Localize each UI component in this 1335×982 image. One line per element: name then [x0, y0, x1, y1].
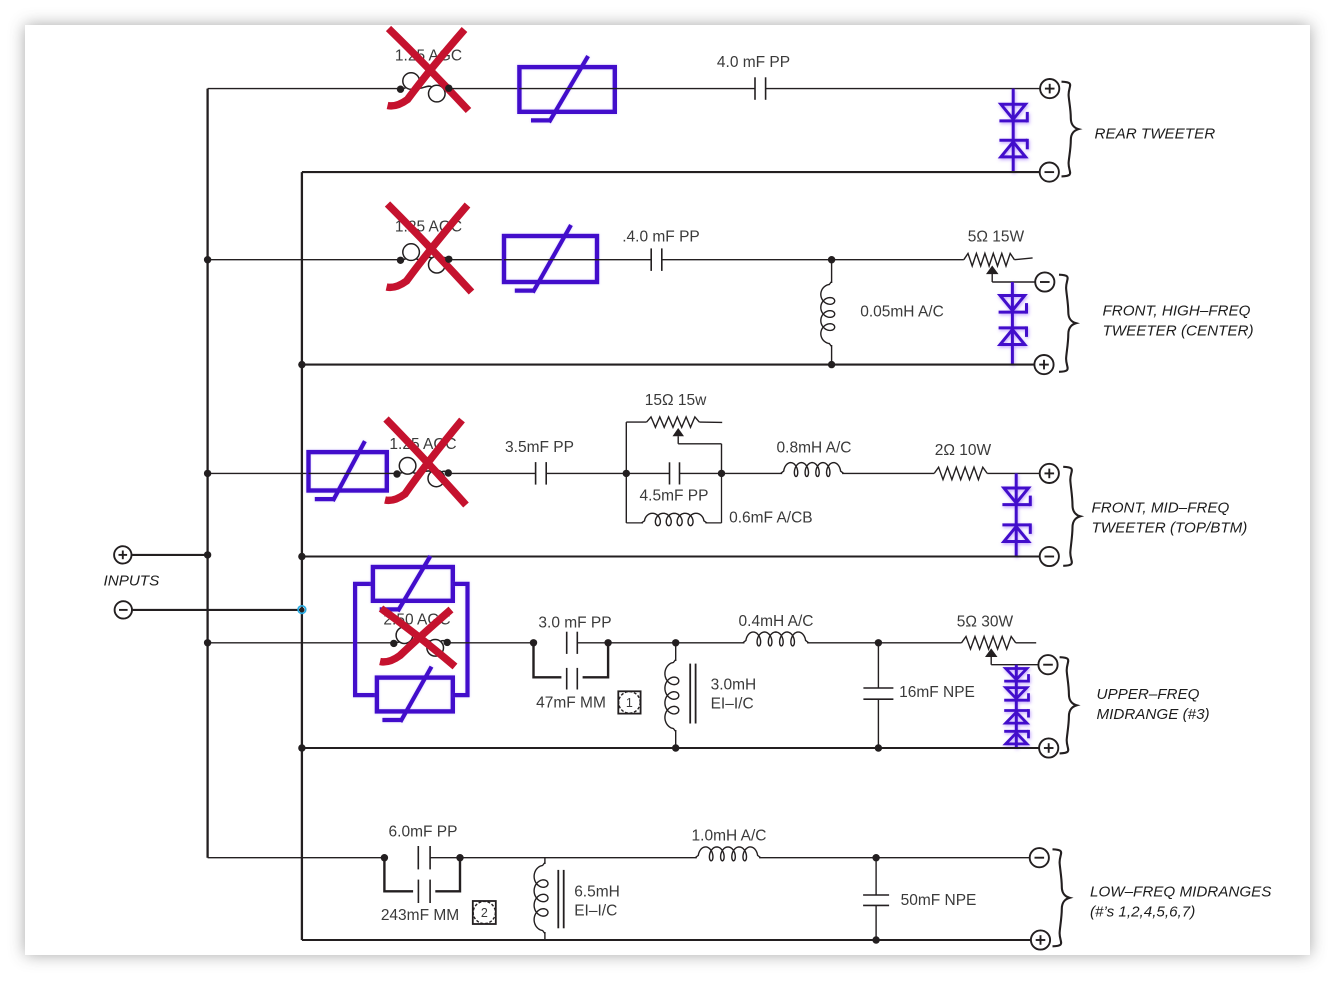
capacitor C9 243mF MM [418, 880, 430, 903]
brace row2 [1059, 275, 1076, 372]
label inductor L4 line2 [711, 696, 754, 713]
capacitor C5 3.0 mF PP [567, 632, 578, 654]
brace row3 [1063, 467, 1080, 566]
varistor frame left (row4 parallel pair) [355, 584, 377, 695]
inductor L7 1.0mH A/C (series) [695, 847, 760, 861]
fuse F3 1.25 AGC (row3) [397, 458, 448, 487]
wire capacitor C1 to + terminal row1 [766, 88, 1041, 90]
label FRONT MID-FREQ line2 [1092, 520, 1248, 537]
wire capacitor C3 to node A [546, 472, 626, 474]
label FRONT HIGH-FREQ TWEETER line1 [1103, 303, 1251, 320]
wire inductor L4 bottom stub [675, 730, 677, 748]
capacitor C2 .4.0 mF PP [651, 248, 662, 271]
label capacitor C1 value [717, 54, 790, 71]
capacitor C7 16mF NPE (shunt) [863, 643, 893, 748]
fuse F4 2.50 AGC (row4) [394, 627, 447, 656]
svg-text:5Ω 30W: 5Ω 30W [957, 614, 1014, 631]
brace row5 [1053, 849, 1070, 946]
node row5 cap loop left [381, 854, 388, 861]
label inductor L3 value [777, 440, 852, 457]
svg-text:MIDRANGE (#3): MIDRANGE (#3) [1097, 706, 1210, 723]
svg-text:3.0 mF PP: 3.0 mF PP [538, 615, 611, 632]
node row4 shunt cap top [875, 639, 882, 646]
red X over fuse F3 (crossed out) [385, 419, 466, 505]
red X over fuse F2 (crossed out) [387, 204, 472, 292]
svg-text:0.05mH A/C: 0.05mH A/C [860, 304, 944, 321]
svg-text:0.4mH A/C: 0.4mH A/C [739, 613, 814, 630]
core of inductor L6 [558, 870, 563, 928]
zener quad D7-D10 (row4 protection) [1004, 665, 1028, 748]
fuse F1 1.25 AGC (row1) [401, 73, 449, 102]
svg-text:2Ω 10W: 2Ω 10W [935, 442, 992, 459]
node fuse F1 terminals [397, 85, 453, 93]
label LOW-FREQ MIDRANGES line1 [1090, 884, 1271, 901]
node row4 cap loop right [604, 639, 611, 646]
zener pair D1/D2 (row1 speaker protection) [999, 89, 1027, 173]
inductor L1 0.05mH A/C (shunt) [821, 260, 835, 347]
varistor RV2 (row2) [504, 225, 597, 293]
svg-text:1.25 AGC: 1.25 AGC [395, 48, 462, 65]
wire row1 return from bus B [302, 171, 1040, 173]
node row2 shunt inductor top [828, 256, 835, 263]
inductor L4 3.0mH EI-I/C (shunt) [665, 643, 679, 732]
wire inductor L3 to resistor R3 [842, 472, 934, 474]
svg-text:TWEETER (TOP/BTM): TWEETER (TOP/BTM) [1092, 520, 1248, 537]
varistor frame right (row4 parallel pair) [453, 584, 468, 695]
node fuse F3 terminals [393, 469, 452, 477]
svg-text:(#’s 1,2,4,5,6,7): (#’s 1,2,4,5,6,7) [1090, 904, 1195, 921]
inductor L6 6.5mH EI-I/C (shunt) [534, 858, 548, 940]
label inductor L6 line1 [574, 884, 620, 901]
label capacitor C5 value [538, 615, 611, 632]
svg-text:EI–I/C: EI–I/C [574, 903, 617, 920]
wire row5 return from bus B [302, 939, 1031, 941]
label capacitor C8 value [389, 824, 458, 841]
svg-text:0.8mH A/C: 0.8mH A/C [777, 440, 852, 457]
capacitor C3 3.5mF PP [536, 462, 547, 485]
terminal row1 + (REAR TWEETER) [1040, 79, 1059, 98]
label capacitor C9 value [381, 907, 459, 924]
wire capacitor C8 to node [430, 857, 460, 859]
node row5 shunt cap top [872, 854, 879, 861]
wire inductor L5 to rheostat R4 [807, 642, 961, 644]
wire row5 feed from bus A [208, 857, 385, 859]
inductor L3 0.8mH A/C [781, 463, 844, 477]
svg-text:4.0 mF PP: 4.0 mF PP [717, 54, 790, 71]
svg-text:0.6mF A/CB: 0.6mF A/CB [729, 510, 813, 527]
numbered tag 1 [618, 691, 640, 713]
wire capacitor C2 to rheostat R1 [662, 259, 964, 261]
svg-text:FRONT, HIGH–FREQ: FRONT, HIGH–FREQ [1103, 303, 1251, 320]
svg-text:47mF MM: 47mF MM [536, 695, 606, 712]
wiper of rheostat R4 [985, 648, 1039, 664]
label capacitor C2 value [622, 229, 700, 246]
wire row2 feed from bus A [208, 259, 400, 261]
capacitor C10 50mF NPE (shunt) [863, 858, 889, 940]
wire node B to inductor L3 [722, 472, 783, 474]
varistor RV1 (row1) [519, 56, 614, 122]
rheostat R4 5 ohm 30W [962, 637, 1037, 650]
label resistor R3 value [935, 442, 992, 459]
wire inductor L1 bottom stub [831, 345, 833, 365]
wire input bus A (from + input, feeds all rows) [206, 89, 208, 858]
wire return bus B (to - input) [301, 172, 303, 940]
label capacitor C4 value [640, 488, 709, 505]
core of inductor L4 [690, 664, 695, 724]
wire capacitor C4 to node B [679, 472, 721, 474]
wire node A up to rheostat branch [625, 422, 627, 473]
brace row4 [1060, 657, 1077, 753]
wire resistor R3 to + terminal row3 [987, 472, 1040, 474]
wire node to shunt inductor L6 [460, 857, 697, 859]
label FRONT HIGH-FREQ TWEETER line2 [1103, 323, 1254, 340]
label inductor L7 value [692, 828, 767, 845]
node fuse F2 terminals [397, 256, 453, 264]
resistor R3 2 ohm 10W [934, 467, 987, 479]
label LOW-FREQ MIDRANGES line2 [1090, 904, 1195, 921]
zener pair D3/D4 (row2 protection) [999, 282, 1027, 365]
wire through varistor RV3 [309, 472, 397, 474]
wire fuse F4 to capacitor C5 [447, 642, 533, 644]
svg-text:1: 1 [626, 696, 633, 710]
svg-text:TWEETER (CENTER): TWEETER (CENTER) [1103, 323, 1254, 340]
label INPUTS [104, 573, 160, 590]
wire varistor RV2 to capacitor C2 [597, 259, 651, 261]
label capacitor C3 value [505, 439, 574, 456]
svg-text:3.5mF PP: 3.5mF PP [505, 439, 574, 456]
wiper of rheostat R1 [986, 266, 1036, 283]
svg-text:LOW–FREQ MIDRANGES: LOW–FREQ MIDRANGES [1090, 884, 1271, 901]
varistor RV5 (row4 bottom) [377, 667, 453, 722]
svg-text:2: 2 [481, 906, 488, 920]
numbered tag 2 [473, 901, 496, 924]
terminal row5 + (low-freq midranges) [1031, 930, 1050, 949]
label inductor L6 line2 [574, 903, 617, 920]
node fuse F4 terminals [390, 639, 451, 647]
svg-text:6.5mH: 6.5mH [574, 884, 620, 901]
brace row1 [1062, 82, 1079, 177]
terminal row4 + (upper-freq midrange) [1039, 738, 1058, 757]
red X over fuse F1 (crossed out) [388, 29, 469, 111]
terminal row1 - (REAR TWEETER) [1040, 163, 1059, 182]
wire fuse F2 to varistor RV2 [449, 259, 504, 261]
label UPPER-FREQ line2 [1097, 706, 1210, 723]
node row5 cap loop right [456, 854, 463, 861]
input terminal - (INPUTS) [115, 601, 132, 618]
inductor L5 0.4mH A/C (series) [743, 632, 809, 646]
label FRONT MID-FREQ line1 [1092, 500, 1230, 517]
varistor RV3 (row3) [309, 441, 387, 501]
label inductor L5 value [739, 613, 814, 630]
wire node to shunt inductor L4 [608, 642, 744, 644]
svg-text:16mF NPE: 16mF NPE [899, 684, 975, 701]
svg-text:1.0mH A/C: 1.0mH A/C [692, 828, 767, 845]
wire fuse F1 to varistor RV1 [449, 88, 520, 90]
terminal row5 - (low-freq midranges) [1030, 848, 1049, 867]
svg-text:EI–I/C: EI–I/C [711, 696, 754, 713]
svg-text:5Ω 15W: 5Ω 15W [968, 229, 1025, 246]
capacitor C1 4.0 mF PP [755, 77, 766, 100]
label inductor L4 line1 [711, 677, 757, 694]
wire node A down to inductor branch [625, 473, 627, 523]
svg-text:3.0mH: 3.0mH [711, 677, 757, 694]
terminal row3 - (mid-freq tweeter) [1040, 547, 1059, 566]
label inductor branch 0.6mF A/CB [729, 510, 813, 527]
wiper of rheostat R2 [673, 428, 722, 473]
svg-text:INPUTS: INPUTS [104, 573, 160, 590]
wire inductor L7 to - terminal row5 [759, 857, 1030, 859]
svg-text:6.0mF PP: 6.0mF PP [389, 824, 458, 841]
red X over fuse F4 (crossed out) [380, 609, 455, 667]
wire row2 return from bus B [298, 361, 1035, 368]
parallel loop for capacitor C6 47mF MM [534, 643, 609, 678]
wire capacitor C5 to node [577, 642, 608, 644]
wire varistor RV1 to capacitor C1 [615, 88, 755, 90]
label rheostat R2 value [645, 392, 707, 409]
rheostat R2 15 ohm 15w [647, 417, 723, 427]
terminal row2 + (tweeter center) [1034, 355, 1053, 374]
label capacitor C6 value [536, 695, 606, 712]
wire row3 return from bus B [298, 553, 1040, 560]
terminal row4 - (upper-freq midrange) [1038, 655, 1057, 674]
fuse F2 1.25 AGC (row2) [401, 244, 449, 273]
wire row1 feed from bus A [208, 88, 400, 90]
svg-text:4.5mF PP: 4.5mF PP [640, 488, 709, 505]
input terminal + (INPUTS) [114, 546, 131, 563]
node row5 shunt cap bottom [872, 936, 879, 943]
wire row4 feed from bus A [208, 642, 394, 644]
wire through varistor RV1 [519, 88, 614, 90]
node B row3 (right of RC network) [718, 470, 725, 477]
label fuse F3 value [389, 436, 456, 453]
wire + input to bus A [132, 551, 211, 558]
wire rheostat branch top left [626, 421, 646, 423]
label fuse F2 value [395, 219, 462, 236]
wire through varistor RV2 [504, 259, 597, 261]
node row4 shunt cap bottom [875, 744, 882, 751]
label fuse F4 value [383, 612, 450, 629]
node A row3 (left of RC network) [623, 470, 630, 477]
capacitor C8 6.0mF PP [418, 846, 430, 869]
label inductor L1 value [860, 304, 944, 321]
svg-text:50mF NPE: 50mF NPE [901, 892, 977, 909]
varistor RV4 (row4 top) [373, 556, 453, 611]
wire node A to capacitor C4 [626, 472, 669, 474]
capacitor C4 4.5mF PP (row3 series) [670, 462, 680, 484]
zener pair D5/D6 (row3 protection) [1002, 473, 1030, 556]
node - input joins bus B (highlighted) [298, 606, 306, 614]
label REAR TWEETER [1095, 126, 1216, 143]
label fuse F1 value [395, 48, 462, 65]
label capacitor C7 value [899, 684, 975, 701]
wire row4 return from bus B [298, 744, 1039, 751]
inductor L2 branch bottom [626, 473, 721, 525]
svg-text:.4.0 mF PP: .4.0 mF PP [622, 229, 700, 246]
svg-text:REAR TWEETER: REAR TWEETER [1095, 126, 1216, 143]
node bus A row3 junction [204, 470, 211, 477]
wire row3 feed from bus A [208, 472, 309, 474]
svg-text:15Ω 15w: 15Ω 15w [645, 392, 707, 409]
node row4 shunt inductor top [672, 639, 679, 646]
label capacitor C10 value [901, 892, 977, 909]
node bus A row2 junction [204, 256, 211, 263]
capacitor C6 47mF MM [567, 668, 578, 690]
svg-text:FRONT, MID–FREQ: FRONT, MID–FREQ [1092, 500, 1230, 517]
wire - input to bus B [133, 609, 302, 611]
node bus A row4 junction [204, 639, 211, 646]
wire fuse F3 to capacitor C3 [448, 472, 535, 474]
label rheostat R4 value [957, 614, 1014, 631]
node row2 shunt inductor bottom [828, 361, 835, 368]
parallel loop for capacitor C9 243mF MM [384, 858, 460, 892]
node row4 shunt inductor bottom [672, 744, 679, 751]
svg-text:UPPER–FREQ: UPPER–FREQ [1097, 686, 1200, 703]
terminal row2 - (tweeter center) [1035, 272, 1054, 291]
label UPPER-FREQ line1 [1097, 686, 1200, 703]
svg-text:243mF MM: 243mF MM [381, 907, 459, 924]
rheostat R1 5 ohm 15W [964, 253, 1033, 266]
label rheostat R1 value [968, 229, 1025, 246]
node row4 cap loop left [530, 639, 537, 646]
terminal row3 + (mid-freq tweeter) [1040, 464, 1059, 483]
